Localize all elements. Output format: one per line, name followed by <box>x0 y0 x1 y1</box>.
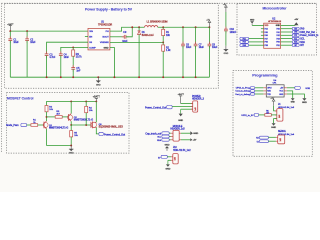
svg-text:VSENSE: VSENSE <box>100 42 109 44</box>
svg-text:HDR-H2.54_1x2: HDR-H2.54_1x2 <box>173 149 191 152</box>
wire COMP to C4 <box>61 47 88 54</box>
svg-text:PB0: PB0 <box>276 42 279 44</box>
svg-text:GND: GND <box>165 144 170 146</box>
svg-text:GND: GND <box>165 168 170 170</box>
junction ground rail GND sym <box>97 76 99 78</box>
ground symbol bottom header <box>165 164 170 170</box>
svg-text:MOSFET Control: MOSFET Control <box>7 96 33 100</box>
junction divider top <box>162 26 164 28</box>
wire Q2 emitter to rail <box>70 101 72 113</box>
svg-text:GND: GND <box>302 102 307 104</box>
net label 5V0 <box>300 29 305 31</box>
capacitor C8 <box>208 27 212 77</box>
svg-text:GND: GND <box>69 153 74 155</box>
net tag PA2 <box>240 41 249 44</box>
inductor L1 <box>145 26 158 28</box>
label J1 POWER HEADER_3 <box>192 96 205 101</box>
label C4 <box>64 55 70 60</box>
wire Q1 emitter down <box>46 129 48 146</box>
junction on VIN rail at C2 <box>26 30 28 32</box>
wire header A pin1 <box>181 103 193 105</box>
page background <box>0 0 320 192</box>
wire R1 to Q1 <box>38 124 44 126</box>
label C2 10uF <box>30 39 36 44</box>
net tag Uart_tx_debug <box>235 90 254 93</box>
resistor R2 pullup <box>45 101 48 117</box>
svg-text:PB2: PB2 <box>265 42 268 44</box>
wire node to R3 <box>47 116 56 118</box>
connector J1 power header <box>191 101 198 112</box>
wire U3 right row1 <box>287 87 295 89</box>
diode D1 <box>138 27 141 77</box>
resistor R1 divider top <box>162 27 165 42</box>
wire Q2 collector down <box>70 121 72 125</box>
microcontroller U2 body <box>264 23 281 48</box>
label R1 1k <box>33 119 37 123</box>
page border left <box>1 3 3 152</box>
connector J2 module header <box>171 130 181 141</box>
wire U3 left row2 <box>255 90 264 92</box>
wire serial pin2 <box>268 140 276 142</box>
label R1 <box>166 32 171 37</box>
junction C7 top <box>195 26 197 28</box>
label U3 <box>273 80 277 84</box>
svg-text:C10: C10 <box>230 29 235 31</box>
label R5 10k <box>74 132 78 137</box>
svg-text:Microcontroller: Microcontroller <box>263 6 288 10</box>
wire +5V to C10 <box>225 12 227 29</box>
svg-text:1nF: 1nF <box>76 70 81 72</box>
label C9 10nF <box>122 32 128 43</box>
label J3 HDR-H2.54_1x2 <box>173 147 191 152</box>
net label SCL <box>300 39 305 41</box>
net tag Uart_rx_debug <box>235 93 254 96</box>
label Q2 MMBT3906 <box>74 117 93 122</box>
adapter U3 body <box>266 85 284 97</box>
svg-text:VIN: VIN <box>89 31 93 33</box>
net tag module row1 <box>145 132 169 136</box>
wire header pin3 to gnd <box>274 119 277 124</box>
svg-text:10uF: 10uF <box>199 47 205 49</box>
power flag +BATT header <box>178 93 185 103</box>
net label SDA <box>300 41 305 44</box>
svg-text:PH: PH <box>106 31 109 33</box>
junction C6 top <box>182 26 184 28</box>
net tag bottom header <box>158 155 167 159</box>
net tag serial TX <box>257 140 269 144</box>
wire Q3 drain to rail <box>95 101 97 122</box>
junction Q1 collector node <box>46 116 48 118</box>
junction ground rail C5 <box>72 76 74 78</box>
U2 left wires to tags <box>249 39 264 46</box>
label R6 4k7 <box>266 110 269 114</box>
wire bottom header pin2 <box>168 160 171 164</box>
label R2 <box>166 48 171 53</box>
svg-text:MODULE: MODULE <box>173 126 183 128</box>
label C3 <box>49 55 56 60</box>
ground symbol C10 <box>224 46 229 55</box>
wire tag to R6 <box>259 114 265 116</box>
wire module tags <box>169 133 171 140</box>
wire module 5v flag <box>181 139 190 141</box>
svg-text:PB3: PB3 <box>265 45 268 47</box>
svg-text:Power Supply - Battery to 5V: Power Supply - Battery to 5V <box>85 8 133 12</box>
svg-text:TPS54231DR: TPS54231DR <box>98 24 113 26</box>
resistor R6 <box>265 114 272 117</box>
connector J4 prog header <box>275 109 283 122</box>
label J4 HDR-H2.54_1x3 <box>278 104 295 109</box>
label Q1 MMBT3904 <box>49 125 68 130</box>
ground symbol mosfet <box>69 146 74 155</box>
svg-text:PB1: PB1 <box>276 45 279 47</box>
U1 right pin names <box>100 31 110 50</box>
resistor R5 pulldown <box>70 125 73 146</box>
svg-text:MMBT3904LT1-G: MMBT3904LT1-G <box>49 127 68 130</box>
junction rail Q2 <box>70 100 72 102</box>
junction ground rail C3 <box>46 76 48 78</box>
net tag PA3 <box>240 44 249 47</box>
label R3 4k7 <box>56 111 60 116</box>
wire Q1 collector <box>46 117 48 121</box>
svg-text:GND: GND <box>224 53 229 55</box>
label C10 100nF <box>230 29 237 34</box>
svg-text:SQD50N05-8M0L_GE3: SQD50N05-8M0L_GE3 <box>99 127 124 129</box>
net label INT <box>300 45 304 47</box>
wire +5V to header pin1 <box>274 106 277 111</box>
net label Power_Control_Out in <box>145 105 172 109</box>
svg-text:Power_Control_Out: Power_Control_Out <box>145 106 166 109</box>
net tag UPDI_3V <box>241 113 258 117</box>
wire header A pin3 <box>181 109 193 113</box>
power flag +BATT rail <box>93 96 101 102</box>
ground symbol header A <box>178 114 183 123</box>
junction COMP node <box>72 46 74 48</box>
junction ground rail U1 GND <box>113 76 115 78</box>
capacitor C4 <box>59 51 63 77</box>
label C8 10uF <box>212 44 218 49</box>
U2 left pin names <box>265 25 269 47</box>
ground symbol U2 left <box>250 20 255 26</box>
U2 right wires <box>281 29 293 46</box>
U1 pin EN stub <box>85 36 88 38</box>
transistor Q3 MOSFET <box>91 121 97 128</box>
power flag +5V C10 <box>223 4 228 12</box>
wire R3 to Q2 base <box>62 116 68 118</box>
label C1 10uF <box>13 39 19 44</box>
capacitor C9 <box>122 35 129 39</box>
junction rail Q3 <box>95 100 97 102</box>
label R2 10k <box>49 107 53 112</box>
wire U3 right row2 <box>287 91 293 98</box>
svg-text:10uF: 10uF <box>30 42 36 44</box>
wire power ground rail <box>10 76 209 78</box>
label U2 ATTINY804 <box>268 18 282 23</box>
junction mosfet gnd <box>70 145 72 147</box>
wire PH to switch node <box>110 27 145 31</box>
label J2 MODULE HEADER <box>170 126 185 130</box>
svg-text:GND: GND <box>193 133 198 135</box>
power flag +5V output <box>206 19 211 27</box>
wire Q3 source down <box>96 127 99 134</box>
power flag +BATT input <box>7 23 14 31</box>
net label Power_Control_Out mosfet <box>99 132 125 136</box>
net label USB_Pwr_Det <box>300 31 315 34</box>
U2 left stub pins <box>261 29 264 36</box>
ground symbol U3 b <box>302 98 307 104</box>
capacitor C3 <box>45 51 49 77</box>
ground symbol prog header <box>271 123 276 129</box>
capacitor C7 <box>194 27 198 77</box>
svg-text:Mode_Pwm: Mode_Pwm <box>6 125 18 127</box>
U3 pin stubs <box>263 88 287 94</box>
junction C8 top <box>208 26 210 28</box>
svg-text:10uF: 10uF <box>212 47 218 49</box>
svg-text:COMP: COMP <box>89 47 96 49</box>
svg-text:L1 SRN6045-150M: L1 SRN6045-150M <box>147 20 168 23</box>
U3 left pin names <box>267 88 272 96</box>
wire serial pin1 <box>268 136 276 138</box>
U2 right net tags <box>292 27 299 47</box>
net tag serial RX <box>256 136 268 139</box>
U3 right pin names <box>279 88 284 96</box>
svg-text:BOOT: BOOT <box>102 37 109 39</box>
capacitor C10 <box>224 27 228 46</box>
section box MOSFET Control <box>7 93 129 154</box>
svg-text:SOE: SOE <box>305 88 310 90</box>
svg-text:GND: GND <box>271 127 276 129</box>
svg-text:10uF: 10uF <box>186 47 192 49</box>
capacitor C1 <box>8 31 12 77</box>
resistor R2 divider bottom <box>162 42 165 77</box>
transistor Q2 PNP <box>68 114 73 122</box>
wire module gnd flag <box>181 132 190 134</box>
wire U3 right row3 <box>287 94 304 98</box>
svg-text:GND: GND <box>96 84 101 86</box>
title Programming <box>252 73 278 78</box>
svg-text:SCL: SCL <box>300 39 305 41</box>
junction gate node R4 <box>85 124 87 126</box>
U2 right pin names <box>276 25 281 47</box>
label D1 B340A-13-F <box>142 32 155 37</box>
label C6 10uF <box>186 44 192 49</box>
junction ground rail R2 div <box>162 76 164 78</box>
svg-text:GND: GND <box>178 120 183 122</box>
wire VIN rail <box>10 30 88 32</box>
ground symbol power rail <box>96 77 101 86</box>
wire U2 pin1 GND <box>252 24 264 26</box>
svg-text:GND: GND <box>279 94 284 96</box>
svg-text:10nF: 10nF <box>64 57 70 59</box>
page border top <box>2 2 318 4</box>
U1 left pin names <box>89 31 96 49</box>
wire 5V output rail <box>158 26 210 28</box>
resistor R4 gate pullup <box>85 101 88 125</box>
regulator U1 body <box>88 28 110 50</box>
wire mosfet top rail <box>47 100 97 102</box>
connector J3 bottom header <box>171 154 178 164</box>
junction ground rail C7 <box>195 76 197 78</box>
label C7 10uF <box>199 44 205 49</box>
wire VSENSE to divider <box>110 41 163 43</box>
wire U2 VCC <box>281 24 296 26</box>
svg-text:10uF: 10uF <box>13 42 19 44</box>
label J5 serial header <box>278 130 295 136</box>
junction diode node <box>138 26 140 28</box>
section box Power Supply <box>5 4 219 89</box>
connector J5 serial header <box>276 135 285 144</box>
net tag PA1 <box>240 37 249 40</box>
svg-text:GND: GND <box>276 25 281 27</box>
svg-text:INT: INT <box>300 45 304 47</box>
capacitor C2 <box>25 31 29 77</box>
wire R6 to header pin2 <box>271 114 277 116</box>
svg-text:Power_Control_Out: Power_Control_Out <box>104 133 125 136</box>
net label Power_Control_In <box>300 34 319 37</box>
svg-text:10.7k: 10.7k <box>76 57 83 59</box>
net tag UPDI_to_Prog <box>236 87 255 90</box>
section box Microcontroller <box>237 4 316 55</box>
power arrow GND module <box>190 131 198 135</box>
wire U1 GND pin down <box>110 48 115 78</box>
ground symbol U3 a <box>291 98 296 103</box>
svg-text:+5V: +5V <box>294 19 298 21</box>
svg-text:GND: GND <box>291 102 296 104</box>
svg-text:EN: EN <box>89 37 92 39</box>
wire SS to C3 <box>47 42 88 54</box>
wire gate line <box>71 124 91 126</box>
section box Programming <box>233 71 312 157</box>
svg-text:SCL: SCL <box>157 137 161 139</box>
label L1 SRN6045-150M <box>147 20 168 23</box>
wire U3 left row3 <box>255 93 264 95</box>
label R3 <box>76 54 83 59</box>
capacitor C6 <box>181 27 185 77</box>
junction gate node left <box>70 124 72 126</box>
wire tag to R1 <box>27 124 31 126</box>
junction VSENSE node <box>162 41 164 43</box>
svg-text:GND: GND <box>104 48 109 50</box>
junction rail R4 <box>85 100 87 102</box>
wire C9 to switch node <box>126 27 132 37</box>
svg-text:4.7nF: 4.7nF <box>49 57 56 59</box>
label R4 10k <box>89 107 93 112</box>
title Power Supply - Battery to 5V <box>85 8 133 12</box>
net tag module row3 <box>157 138 169 141</box>
capacitor C5 comp <box>71 65 75 77</box>
net label Mode_Pwm <box>6 123 26 127</box>
wire mosfet ground run <box>47 145 72 147</box>
resistor R1 base <box>31 124 38 127</box>
resistor R3 comp <box>72 47 75 67</box>
title Microcontroller <box>263 6 288 10</box>
resistor R3 interstage <box>55 116 62 119</box>
wire header A pin2 <box>172 105 193 107</box>
svg-text:4k7: 4k7 <box>266 112 269 114</box>
svg-text:Programming: Programming <box>252 73 278 78</box>
svg-text:100nF: 100nF <box>230 32 237 34</box>
ground symbol module <box>165 144 170 151</box>
junction C9 riser <box>131 26 133 28</box>
title MOSFET Control <box>7 96 33 100</box>
wire BOOT to C9 <box>110 36 124 38</box>
net tag SCK <box>295 86 311 90</box>
net tag module row2 <box>157 135 169 138</box>
junction ground rail D1 <box>138 76 140 78</box>
svg-text:POWER: POWER <box>192 96 201 98</box>
junction ground rail C4 <box>60 76 62 78</box>
transistor Q1 NPN <box>43 121 48 129</box>
svg-text:MMBT3906LT1-G: MMBT3906LT1-G <box>74 119 93 122</box>
label C5 <box>76 68 81 73</box>
power flag +5V U2 <box>294 19 299 25</box>
power arrow +5V module <box>190 138 197 141</box>
svg-text:R6: R6 <box>266 110 268 112</box>
wire bottom header pin1 <box>167 156 171 158</box>
wire U3 left row1 <box>255 87 264 89</box>
junction on VIN rail at C1 <box>9 30 11 32</box>
label U1 TPS54231DR <box>98 22 113 27</box>
power flag +5V prog <box>270 98 275 106</box>
svg-text:UPDI: UPDI <box>267 88 272 90</box>
svg-text:CP1: CP1 <box>273 83 277 85</box>
junction ground rail C6 <box>182 76 184 78</box>
label Q3 SQD50N05 <box>99 124 124 129</box>
